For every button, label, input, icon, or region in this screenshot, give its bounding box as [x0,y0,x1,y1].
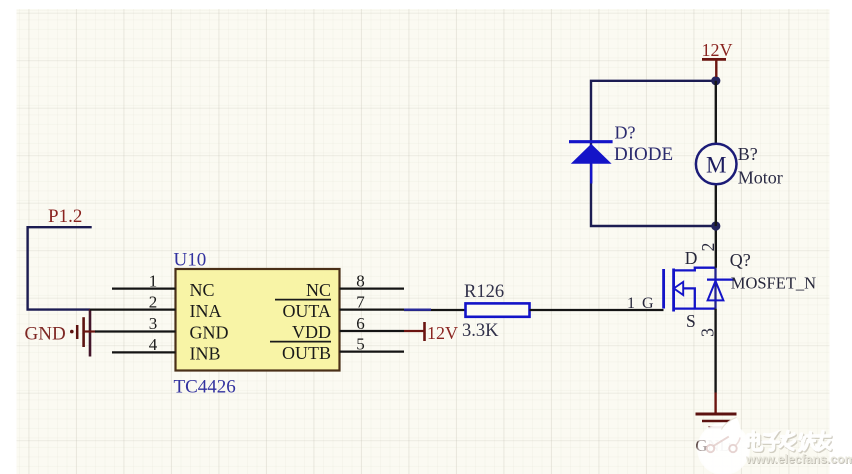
pin 8 NC (right) [306,271,404,300]
svg-text:VDD: VDD [292,322,331,342]
pin 3 GND (left) [95,314,229,342]
svg-text:U10: U10 [174,250,207,271]
svg-text:OUTA: OUTA [282,301,331,321]
svg-text:8: 8 [356,271,365,290]
watermark url www.elecfans.com [745,452,852,467]
svg-text:INB: INB [190,344,221,364]
svg-text:1: 1 [149,271,158,290]
junction (bottom, drain node) [711,221,720,230]
svg-text:R126: R126 [464,282,504,302]
junction (top, 12V node) [711,76,720,85]
svg-text:G: G [696,436,708,455]
svg-text:D?: D? [615,123,636,143]
svg-text:Q?: Q? [730,250,751,270]
MOSFET Q? symbol [664,268,735,312]
svg-text:3.3K: 3.3K [462,321,499,341]
watermark text 电子发烧友 (drawn strokes) [748,432,831,452]
svg-text:NC: NC [190,280,215,300]
pin 2 INA (left) [90,292,222,320]
pin 6 VDD (right) [292,314,404,342]
motor B? circle [696,144,737,185]
wire: source vertical down [714,309,716,393]
pin 5 OUTB (right, overline) [270,334,404,362]
svg-text:4: 4 [149,335,158,354]
resistor R126 [466,303,530,316]
svg-text:P1.2: P1.2 [48,206,82,227]
pin 4 INB (left) [112,335,221,363]
wire OUTA to R126 [404,309,466,312]
power wire into bottom GND [714,393,716,414]
svg-text:1: 1 [627,295,635,312]
svg-text:M: M [706,152,726,177]
wire: freewheel diode loop [591,81,716,226]
svg-text:www.elecfans.com: www.elecfans.com [745,452,852,466]
wire R126 to MOSFET gate [530,309,664,311]
svg-text:GND: GND [190,323,229,343]
svg-text:3: 3 [149,314,158,333]
power ground GND (bottom) [696,414,737,455]
svg-text:OUTB: OUTB [282,343,331,363]
svg-text:Motor: Motor [738,167,783,187]
svg-text:2: 2 [149,292,158,311]
svg-text:B?: B? [738,144,758,164]
svg-text:S: S [686,311,696,331]
IC U1 body (TC4426) [176,269,340,371]
svg-text:DIODE: DIODE [614,144,673,165]
svg-text:5: 5 [356,334,365,353]
svg-text:MOSFET_N: MOSFET_N [731,274,816,293]
watermark logo (elecfans circle) [696,418,750,474]
svg-text:NC: NC [306,280,331,300]
pin 1 NC (left) [112,271,215,300]
wire: drain vertical up to motor branch [715,226,717,268]
wire: motor branch vertical (bottom) [715,184,717,226]
wire: motor branch vertical (top) [715,81,717,144]
svg-text:7: 7 [356,292,365,311]
wire: net P1.2 from edge to pin 2 (INA) [28,227,92,309]
svg-text:TC4426: TC4426 [174,377,236,398]
power 12V (top) [702,40,733,77]
pin 7 OUTA (right, overline) [275,292,404,320]
svg-text:GND: GND [25,324,66,345]
diode D? symbol [569,142,613,184]
svg-text:G: G [642,295,654,312]
power ground GND (left, sideways bars) [25,317,97,347]
svg-text:12V: 12V [702,40,733,60]
svg-text:12V: 12V [427,323,458,343]
svg-text:6: 6 [356,314,365,333]
svg-text:D: D [685,248,698,268]
svg-text:INA: INA [190,301,222,321]
power 12V at VDD pin 6 [404,322,458,343]
wire: INA/INB tie vertical at IC left [89,309,92,357]
